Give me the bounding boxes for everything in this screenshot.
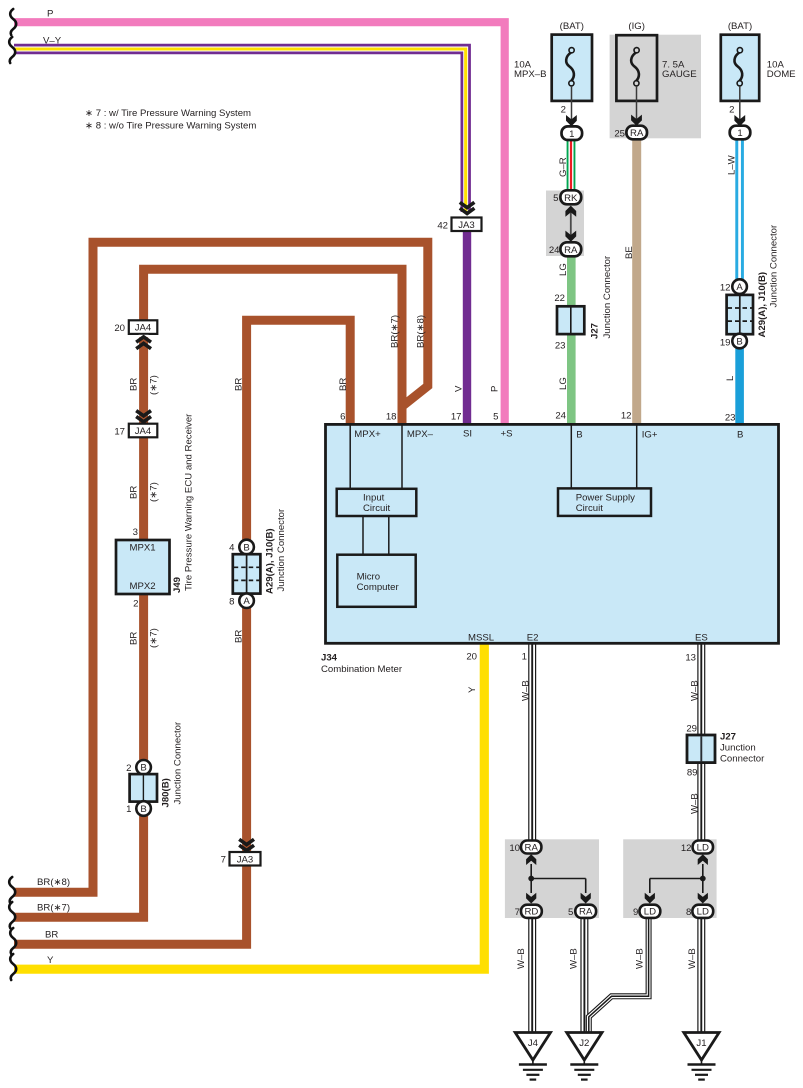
svg-text:MPX1: MPX1 [130,543,156,554]
svg-text:V: V [454,385,465,392]
brace V-Y [9,37,15,63]
svg-text:RD: RD [524,907,538,918]
svg-text:13: 13 [685,653,696,664]
svg-text:12: 12 [621,411,632,422]
svg-text:MPX2: MPX2 [130,581,156,592]
brace BR [10,928,16,954]
svg-text:B: B [576,429,582,440]
svg-text:W–B: W–B [635,948,646,969]
svg-text:1: 1 [569,129,574,140]
svg-text:4: 4 [229,543,235,554]
brace BR(*7) [9,902,15,928]
svg-text:J49: J49 [172,577,183,593]
svg-text:B: B [140,763,146,774]
label J34 combination meter [321,653,403,675]
svg-text:42: 42 [437,220,448,231]
svg-text:LG: LG [558,377,569,390]
relay right: oval 8 LD [686,905,713,918]
svg-text:J80(B): J80(B) [161,778,172,807]
chevron down above 17 JA4 [136,411,151,422]
gray background of GAUGE fuse [610,35,701,139]
svg-text:Junction Connector: Junction Connector [276,508,287,591]
svg-text:Circuit: Circuit [363,503,391,514]
svg-text:BR: BR [45,929,58,940]
svg-text:MPX–: MPX– [407,429,434,440]
svg-text:19: 19 [720,337,731,348]
wire P pink [14,22,505,425]
gray background relay block right [623,839,716,918]
svg-text:SI: SI [463,429,472,440]
svg-text:W–B: W–B [690,680,701,701]
svg-text:89: 89 [687,767,698,778]
svg-text:RA: RA [579,907,593,918]
meter top pin labels [354,429,743,441]
svg-text:2: 2 [561,105,566,116]
svg-text:DOME: DOME [767,69,796,80]
svg-text:8: 8 [229,596,234,607]
wire L blue [735,344,744,425]
svg-text:LD: LD [644,907,656,918]
svg-text:Combination Meter: Combination Meter [321,664,403,675]
svg-text:B: B [243,542,249,553]
wire BR(*7) brown [14,269,402,917]
relay left: oval 7 RD [515,905,542,918]
svg-text:LD: LD [697,842,709,853]
meter bottom pin labels [468,632,708,643]
svg-text:5: 5 [493,412,498,423]
svg-text:BR(∗7): BR(∗7) [390,315,401,348]
wire LG light green [567,254,576,425]
internal wires input circuit to micro computer [363,516,389,555]
svg-text:10: 10 [509,843,520,854]
ground J2 [567,1033,602,1080]
svg-text:V–Y: V–Y [43,36,62,47]
gray background of RK-RA junction [546,191,584,257]
svg-text:W–B: W–B [521,680,532,701]
svg-text:RA: RA [564,245,578,256]
power supply circuit box [558,488,651,516]
chevron down above 7 JA3 [239,839,254,850]
svg-text:29: 29 [686,723,697,734]
svg-text:BR(∗8): BR(∗8) [37,877,70,888]
svg-text:JA4: JA4 [135,426,152,437]
gray background relay block left [505,839,599,918]
svg-text:3: 3 [133,527,138,538]
svg-text:23: 23 [725,413,736,424]
relay right: arrow up to 12 LD [698,854,708,878]
svg-text:MPX–B: MPX–B [514,69,547,80]
svg-text:24: 24 [555,411,566,422]
svg-text:L–W: L–W [727,154,738,175]
wire W-B ES lower to J1 [697,916,705,1034]
chevron into 42 JA3 [460,202,475,213]
svg-text:JA3: JA3 [237,854,254,865]
chevron up below 20 JA4 [136,335,151,349]
junction connector J80(B) [126,721,183,816]
meter bottom pin numbers [466,651,696,663]
wire W-B E2 lower to J4 [528,916,536,1034]
svg-text:20: 20 [114,323,125,334]
svg-text:(BAT): (BAT) [728,21,752,32]
label BR (*7) pair 1 [129,375,160,395]
junction connector J27 box (29/89) [687,735,715,763]
svg-text:25: 25 [614,128,625,139]
relay right: oval 12 LD [681,841,713,854]
svg-text:ES: ES [695,632,708,643]
svg-text:∗ 8 : w/o Tire Pressure Warnin: ∗ 8 : w/o Tire Pressure Warning System [85,120,256,131]
svg-text:B: B [737,429,743,440]
svg-text:MPX+: MPX+ [354,429,381,440]
svg-text:W–B: W–B [569,948,580,969]
svg-text:2: 2 [729,105,734,116]
brace Y [10,954,16,980]
svg-text:Junction Connector: Junction Connector [769,224,780,307]
svg-text:P: P [490,386,501,392]
svg-text:(BAT): (BAT) [560,21,584,32]
svg-text:12: 12 [681,843,692,854]
svg-text:Y: Y [47,955,54,966]
svg-text:W–B: W–B [687,948,698,969]
svg-text:∗ 7 : w/ Tire Pressure Warning: ∗ 7 : w/ Tire Pressure Warning System [85,108,251,119]
svg-text:1: 1 [737,128,742,139]
svg-text:Junction Connector: Junction Connector [173,721,184,804]
svg-text:G–R: G–R [558,157,569,177]
svg-text:J1: J1 [696,1038,706,1049]
connector 20 JA4 [114,320,157,334]
svg-text:Computer: Computer [357,582,400,593]
junction connector J27 box (22/23) [554,255,613,352]
svg-text:(∗7): (∗7) [149,482,160,502]
svg-text:E2: E2 [527,632,539,643]
svg-text:LD: LD [697,907,709,918]
svg-text:2: 2 [133,598,138,609]
svg-text:W–B: W–B [690,793,701,814]
connector 42 JA3 [437,218,481,232]
svg-text:20: 20 [466,651,477,662]
wire L-W lightblue-white [735,137,744,282]
junction connector A29(A) J10(B) left (4B/8A) [229,508,287,608]
combination meter J34 box [326,424,779,643]
fuse 10A DOME [721,21,796,101]
svg-text:22: 22 [554,293,565,304]
internal wire MPX+ to input circuit [349,425,351,489]
fuse 7.5A GAUGE [616,21,696,101]
label BR (*7) pair 3 [129,628,160,648]
internal wire IG+ to power supply [636,425,638,489]
svg-text:Power Supply: Power Supply [576,493,635,504]
svg-text:Connector: Connector [720,753,765,764]
svg-text:BR(∗7): BR(∗7) [37,902,70,913]
svg-text:P: P [47,9,53,20]
brace P [10,9,16,35]
svg-text:9: 9 [633,907,638,918]
input circuit box [337,489,417,516]
wire W-B 9LD jog to J2 [589,916,649,1034]
svg-text:Tire Pressure Warning ECU and: Tire Pressure Warning ECU and Receiver [184,413,195,591]
svg-text:MSSL: MSSL [468,632,495,643]
svg-text:23: 23 [555,341,566,352]
svg-text:Junction: Junction [720,742,756,753]
oval terminal RA below GAUGE fuse [614,126,647,140]
svg-text:Y: Y [467,686,478,693]
oval terminal 5 RK [553,190,581,204]
svg-text:A: A [243,596,250,607]
svg-text:J27: J27 [720,731,736,742]
svg-text:RA: RA [525,842,539,853]
pin 25 stem and arrow below GAUGE fuse [631,86,642,126]
svg-text:18: 18 [386,412,397,423]
svg-text:+S: +S [501,429,513,440]
wire V-Y violet-yellow [14,49,466,212]
svg-text:12: 12 [720,282,731,293]
svg-text:JA3: JA3 [458,220,475,231]
wire BE beige [632,137,641,425]
svg-text:17: 17 [451,412,462,423]
svg-text:BR: BR [129,632,140,645]
svg-text:(IG): (IG) [628,21,645,32]
svg-text:Junction Connector: Junction Connector [602,255,613,338]
wire V violet [463,230,471,425]
oval terminal 1 below DOME fuse [730,126,751,140]
svg-text:(∗7): (∗7) [149,375,160,395]
svg-text:Circuit: Circuit [576,503,604,514]
ground J4 [515,1033,550,1080]
wire W-B E2 upper [528,642,536,841]
relay right: junction dot and branch [645,876,708,904]
svg-text:BR: BR [129,378,140,391]
pin 2 stem and arrow below MPX-B fuse [561,86,577,126]
svg-text:GAUGE: GAUGE [662,69,697,80]
svg-text:Input: Input [363,493,385,504]
svg-text:7: 7 [515,907,520,918]
relay left: oval 5 RA [568,905,596,918]
svg-text:8: 8 [686,907,691,918]
relay right: oval 9 LD [633,905,660,918]
svg-text:J27: J27 [590,323,601,339]
svg-text:J2: J2 [579,1038,589,1049]
ground J1 [684,1033,719,1080]
svg-text:A: A [736,282,743,293]
svg-text:5: 5 [553,193,558,204]
internal wire B to power supply [570,425,572,489]
double-headed arrow between RK and RA [565,206,576,242]
wire BR(*8) brown [14,242,428,892]
fuse 10A MPX-B [514,21,592,101]
micro computer box [337,555,415,607]
svg-text:(∗7): (∗7) [149,628,160,648]
label BR (*7) pair 2 [129,482,160,502]
svg-text:BR: BR [234,378,245,391]
connector 7 JA3 [221,852,261,866]
svg-text:B: B [736,336,742,347]
svg-text:RK: RK [564,193,578,204]
svg-text:J34: J34 [321,653,338,664]
svg-text:BR: BR [338,378,349,391]
svg-text:BR(∗8): BR(∗8) [416,315,427,348]
svg-text:1: 1 [522,651,527,662]
svg-text:5: 5 [568,907,573,918]
ECU J49 MPX1/MPX2 [116,413,195,610]
svg-text:A29(A), J10(B): A29(A), J10(B) [757,272,768,338]
brace BR(*8) [9,877,15,903]
svg-text:W–B: W–B [516,948,527,969]
svg-text:JA4: JA4 [135,323,152,334]
svg-text:24: 24 [549,245,560,256]
svg-text:17: 17 [114,426,125,437]
oval terminal 24 RA [549,242,581,256]
wire BR brown [14,320,350,944]
relay left: junction dot and branch [526,876,591,904]
svg-text:RA: RA [630,128,644,139]
label J27 junction connector right [720,731,765,764]
svg-text:BR: BR [234,630,245,643]
svg-text:A29(A), J10(B): A29(A), J10(B) [265,528,276,594]
relay left: oval 10 RA [509,841,541,854]
wire Y yellow [14,643,484,969]
svg-text:IG+: IG+ [642,429,658,440]
oval terminal 1 below MPX-B fuse [562,126,583,140]
svg-text:J4: J4 [528,1038,539,1049]
svg-text:2: 2 [126,763,131,774]
svg-text:LG: LG [558,263,569,276]
relay left: arrow up to 10 RA [526,854,536,878]
wire W-B ES upper [697,642,705,841]
svg-text:L: L [725,375,736,381]
svg-text:6: 6 [340,412,345,423]
svg-text:Micro: Micro [357,572,380,583]
connector 17 JA4 [114,424,157,438]
internal wire MPX- to input circuit [401,425,403,489]
wire G-R green-red [567,138,576,192]
svg-text:7: 7 [221,855,226,866]
wire W-B 5RA to J2 [580,916,588,1034]
svg-text:BR: BR [129,486,140,499]
svg-text:1: 1 [126,804,131,815]
pin 2 stem and arrow below DOME fuse [729,86,745,126]
svg-text:BE: BE [624,246,635,259]
svg-text:B: B [140,804,146,815]
note tire pressure [85,108,256,132]
junction connector A29(A) J10(B) right (12A/19B) [720,224,780,348]
